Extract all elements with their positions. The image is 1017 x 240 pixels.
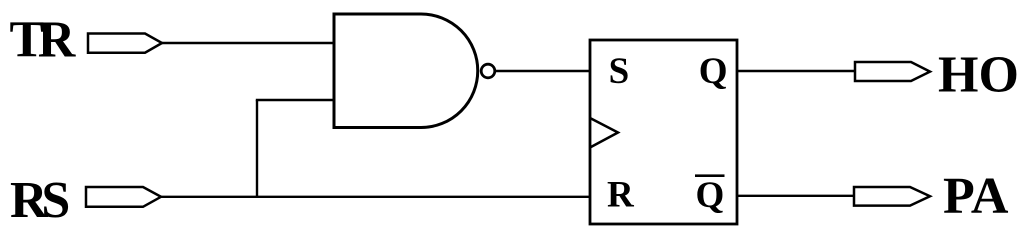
NAND gate U1 inversion bubble <box>481 64 495 78</box>
flip-flop U2 clock chevron <box>590 118 618 148</box>
wire branch to NAND input B <box>256 99 334 101</box>
svg-text:S: S <box>609 51 630 92</box>
svg-text:Q: Q <box>699 51 728 92</box>
output port PA <box>854 187 930 206</box>
output port HO <box>855 62 930 81</box>
svg-text:PA: PA <box>943 168 1009 225</box>
svg-text:HO: HO <box>938 47 1017 104</box>
svg-text:Q: Q <box>696 175 725 216</box>
pin label Q-bar overline <box>695 174 725 177</box>
input port TR <box>88 34 162 53</box>
wire TR to NAND input A <box>162 42 334 44</box>
svg-text:R: R <box>607 174 635 215</box>
wire RS to flip-flop R input <box>161 196 590 198</box>
wire NAND output to flip-flop S input <box>496 70 590 72</box>
NAND gate U1 body <box>334 14 478 128</box>
input port RS <box>86 187 161 207</box>
wire flip-flop Q-bar output to PA port <box>737 195 854 197</box>
svg-text:TR: TR <box>10 12 77 69</box>
wire vertical branch from RS wire junction up to NAND <box>256 100 258 198</box>
flip-flop U2 body <box>590 40 737 224</box>
svg-text:RS: RS <box>10 172 68 229</box>
wire flip-flop Q output to HO port <box>737 70 855 72</box>
